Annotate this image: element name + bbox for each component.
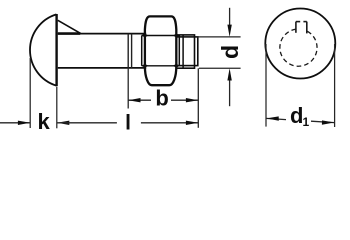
svg-text:k: k: [37, 109, 50, 134]
thread end left edge: [182, 35, 184, 68]
nib hidden square top dash right: [303, 21, 306, 23]
d1 dimension line left part: [266, 118, 286, 119]
nut chamfer tangency line top: [142, 35, 180, 37]
nut chamfer lens top-right: [173, 34, 180, 38]
d extension line top: [197, 36, 241, 38]
shank bottom line: [58, 67, 146, 69]
end view: hidden shank dashed circle: [280, 29, 317, 66]
nut side face right edge: [178, 36, 180, 66]
nib hidden square top dash left: [296, 21, 300, 23]
k extension right (below head face): [56, 87, 58, 129]
d1 dimension line right part: [311, 121, 334, 122]
end view: head circle: [265, 9, 335, 79]
k/l dimension line far left: [0, 122, 30, 124]
d arrowhead top: [227, 25, 231, 37]
b extension left: [127, 68, 129, 109]
nib base thick segment: [58, 32, 80, 35]
nib hidden square right edge: [306, 22, 308, 34]
k extension left: [29, 58, 31, 128]
l arrowhead right: [186, 121, 198, 125]
l dimension line right part: [141, 122, 198, 124]
nut chamfer lens bottom-right: [173, 64, 180, 68]
l dimension line left part: [57, 122, 117, 124]
thread runout line 1: [127, 34, 129, 68]
head face line: [55, 14, 57, 86]
b dimension line right part: [171, 99, 198, 101]
d1 arrowhead left: [266, 116, 278, 120]
svg-text:d: d: [290, 103, 303, 128]
d arrow line bottom: [229, 79, 231, 106]
d1 extension left: [265, 44, 267, 127]
nut side face left edge: [141, 36, 143, 66]
nut chamfer lens bottom-left: [141, 64, 148, 68]
k arrowhead (outside, pointing right): [18, 121, 30, 125]
shank top line: [58, 33, 146, 35]
nut chamfer lens top-left: [141, 34, 148, 38]
svg-text:d: d: [217, 45, 243, 59]
b extension right / l extension right: [197, 68, 199, 128]
d arrow line top: [229, 8, 231, 26]
l arrowhead left (pointing left, tip at head face): [57, 121, 69, 125]
nut chamfer tangency line bottom: [142, 65, 180, 67]
b dimension line left part: [128, 99, 151, 101]
d extension line bottom: [199, 67, 241, 69]
svg-text:b: b: [155, 86, 168, 111]
svg-text:1: 1: [303, 115, 310, 129]
b arrowhead left: [128, 98, 140, 102]
d1 extension right: [334, 44, 336, 127]
thread end inner rect: [177, 37, 198, 66]
b arrowhead right: [186, 98, 198, 102]
thread runout line 2: [131, 34, 133, 68]
nut middle face body: [145, 16, 176, 85]
d1 arrowhead right: [322, 120, 334, 124]
head arc (cup head): [30, 14, 56, 85]
thread end outer rect: [177, 35, 195, 68]
nib slant edge: [58, 20, 81, 33]
d arrowhead bottom: [227, 68, 231, 80]
nib hidden square left edge: [295, 22, 297, 33]
svg-text:l: l: [125, 112, 131, 135]
